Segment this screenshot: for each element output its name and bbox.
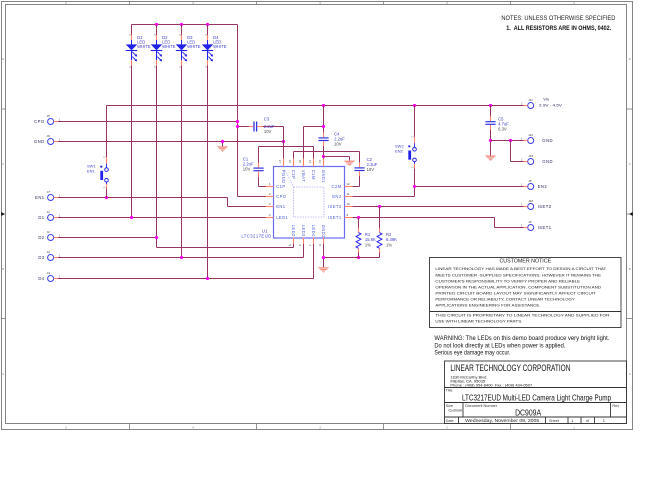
connector J5 CPO [34, 114, 61, 125]
svg-text:1: 1 [178, 66, 181, 68]
svg-text:J10: J10 [528, 199, 533, 203]
svg-text:EN1: EN1 [276, 204, 286, 209]
wire C3 left [236, 125, 249, 128]
capacitor C2 2.2uF [354, 157, 377, 176]
svg-text:J5: J5 [47, 114, 51, 118]
svg-text:J9: J9 [528, 220, 532, 224]
svg-text:J2: J2 [47, 230, 51, 234]
ground symbol (GND1) [344, 161, 355, 167]
LED D3 [176, 34, 201, 68]
svg-text:C3: C3 [264, 117, 270, 122]
svg-text:Custom: Custom [448, 408, 462, 413]
svg-text:Phone : (408) 954-8400 Fax :: Phone : (408) 954-8400 Fax : (408) 434-0… [450, 383, 533, 388]
svg-text:J4: J4 [47, 271, 51, 275]
connector J11 Vin [521, 98, 534, 109]
wire R1 top [358, 218, 360, 229]
svg-text:2: 2 [446, 426, 448, 430]
warning text [434, 335, 609, 357]
svg-text:Title: Title [446, 389, 453, 393]
svg-text:MEETS CUSTOMER -SUPPLIED SPECI: MEETS CUSTOMER -SUPPLIED SPECIFICATIONS;… [435, 272, 601, 277]
svg-text:Do not look directly at LEDs w: Do not look directly at LEDs when power … [434, 342, 565, 349]
svg-text:EN1: EN1 [35, 195, 45, 200]
capacitor C3 2.2uF [249, 117, 275, 134]
wire SW2 top [414, 106, 416, 137]
svg-text:WHITE: WHITE [213, 44, 227, 49]
svg-text:2: 2 [411, 136, 414, 138]
svg-text:GND: GND [542, 138, 553, 143]
svg-text:3: 3 [319, 426, 321, 430]
svg-text:DC909A: DC909A [515, 408, 542, 417]
ground symbol (GND rail) [217, 146, 228, 152]
svg-text:5: 5 [288, 244, 292, 246]
wire GND J12 line [491, 139, 525, 142]
svg-text:C: C [2, 162, 4, 166]
svg-text:LED1: LED1 [276, 215, 288, 220]
wire D3 anode column [181, 25, 183, 36]
svg-text:CPO: CPO [276, 194, 287, 199]
svg-text:10V: 10V [367, 167, 375, 172]
svg-text:3: 3 [269, 202, 271, 206]
svg-text:NOTES: UNLESS OTHERWISE SPECIF: NOTES: UNLESS OTHERWISE SPECIFIED [501, 15, 616, 22]
svg-text:EN2: EN2 [538, 184, 548, 189]
node bus junctions [155, 23, 209, 26]
svg-text:LINEAR TECHNOLOGY CORPORATION: LINEAR TECHNOLOGY CORPORATION [450, 363, 570, 373]
svg-text:1: 1 [571, 418, 574, 423]
wire C5 bottom to ground [489, 129, 492, 156]
svg-text:WHITE: WHITE [187, 44, 201, 49]
svg-text:D: D [629, 57, 631, 61]
resistor R1 15.6K [356, 228, 376, 252]
svg-text:12: 12 [346, 182, 350, 186]
svg-text:1%: 1% [365, 242, 371, 247]
connector J10 ISET2 [521, 199, 552, 210]
svg-text:USE WITH LINEAR TECHNOLOGY PAR: USE WITH LINEAR TECHNOLOGY PARTS. [435, 319, 522, 324]
wire ISET1 line [352, 216, 524, 228]
svg-text:J11: J11 [528, 98, 533, 102]
svg-text:9: 9 [346, 213, 348, 217]
svg-text:A: A [629, 372, 631, 376]
svg-text:B: B [629, 267, 631, 271]
wire C2M pin12 to C2 bottom [352, 176, 359, 187]
connector J9 ISET1 [521, 220, 552, 231]
svg-text:16: 16 [288, 160, 292, 164]
svg-text:OPERATION IN THE ACTUAL APPLIC: OPERATION IN THE ACTUAL APPLICATION. COM… [435, 284, 601, 289]
svg-text:C2P: C2P [291, 170, 296, 179]
svg-text:LED2: LED2 [291, 225, 296, 237]
wire VBAT pin15 [304, 127, 324, 159]
svg-text:ISET1: ISET1 [328, 215, 342, 220]
wire D1 anode column [131, 25, 133, 36]
capacitor C5 4.7uF [485, 116, 509, 131]
svg-text:10V: 10V [264, 129, 272, 134]
svg-text:ISET1: ISET1 [538, 225, 552, 230]
LED D4 [202, 34, 227, 68]
wire Vin to C4 [322, 106, 325, 134]
wire R1 bottom [357, 253, 360, 260]
svg-text:J1: J1 [47, 210, 51, 214]
svg-text:Document Number: Document Number [465, 404, 498, 408]
svg-text:EN2: EN2 [395, 148, 404, 153]
svg-text:D2: D2 [38, 235, 44, 240]
svg-text:PRINTED CIRCUIT BOARD LAYOUT M: PRINTED CIRCUIT BOARD LAYOUT MAY SIGNIFI… [435, 290, 596, 295]
title block [445, 361, 627, 424]
svg-text:LED4: LED4 [311, 225, 316, 237]
svg-text:THIS CIRCUIT IS PROPRIETARY TO: THIS CIRCUIT IS PROPRIETARY TO LINEAR TE… [435, 313, 609, 318]
wire GND2 to ground and resistors [322, 244, 380, 268]
wire C3 right to gnd [263, 127, 284, 142]
connector J12 GND [521, 133, 553, 144]
svg-text:10: 10 [346, 202, 350, 206]
svg-text:6.3V: 6.3V [498, 127, 507, 132]
wire R2 bottom [379, 253, 381, 258]
svg-text:J12: J12 [528, 133, 533, 137]
svg-text:1. ALL RESISTORS ARE IN OHMS,: 1. ALL RESISTORS ARE IN OHMS, 0402. [506, 26, 611, 32]
svg-text:WHITE: WHITE [162, 44, 176, 49]
svg-text:ISET2: ISET2 [328, 204, 342, 209]
svg-text:J8: J8 [528, 179, 532, 183]
svg-text:Wednesday, November 09, 2005: Wednesday, November 09, 2005 [465, 418, 539, 423]
svg-text:LINEAR TECHNOLOGY HAS MADE A B: LINEAR TECHNOLOGY HAS MADE A BEST EFFORT… [435, 266, 606, 271]
connector J7 EN1 [35, 190, 61, 201]
LED D1 [126, 34, 151, 68]
wire C2P pin16 to C2 top [294, 152, 360, 164]
svg-text:4: 4 [192, 426, 194, 430]
connector J4 D4 [38, 271, 61, 282]
ground symbol (C5) [485, 156, 496, 162]
svg-text:10V: 10V [243, 167, 251, 172]
svg-text:D: D [2, 57, 4, 61]
svg-text:Vin: Vin [543, 96, 549, 101]
svg-text:6: 6 [298, 244, 302, 246]
svg-text:4: 4 [269, 213, 271, 217]
wire LED1/D1 line [58, 216, 266, 219]
svg-text:VBAT: VBAT [301, 170, 306, 182]
svg-text:1%: 1% [386, 242, 392, 247]
capacitor C1 2.2uF [243, 156, 264, 176]
wire D2 line [58, 236, 158, 239]
svg-text:17: 17 [278, 160, 282, 164]
wire D3/LED3 line [58, 244, 304, 260]
svg-text:7: 7 [308, 244, 312, 246]
svg-text:EN1: EN1 [87, 169, 96, 174]
wire D4 cathode column [207, 65, 209, 278]
svg-text:A: A [2, 372, 4, 376]
customer notice box [430, 258, 622, 328]
connector J2 D2 [38, 230, 61, 241]
svg-text:1: 1 [573, 426, 575, 430]
svg-text:CPO: CPO [34, 119, 45, 124]
svg-text:PGND: PGND [281, 170, 286, 184]
wire C4 bottom to GND1 [322, 145, 325, 159]
connector J13 GND [521, 154, 553, 165]
svg-text:J7: J7 [47, 190, 51, 194]
switch SW1 EN1 [87, 156, 108, 189]
label Vin voltage [539, 96, 562, 107]
svg-text:10V: 10V [334, 142, 342, 147]
wire LED anode bus [132, 24, 238, 26]
wire D1 cathode column [131, 65, 133, 217]
svg-text:ISET2: ISET2 [538, 204, 552, 209]
svg-text:8: 8 [318, 244, 322, 246]
svg-text:C1M: C1M [311, 170, 316, 180]
svg-text:J13: J13 [528, 154, 533, 158]
svg-text:2: 2 [178, 34, 181, 36]
wire SW2 bottom / EN2 line [352, 168, 524, 196]
svg-text:J6: J6 [47, 134, 51, 138]
op-amp U1 LTC3217EUD [241, 159, 352, 247]
node Vin junctions [322, 104, 492, 107]
svg-text:CUSTOMER NOTICE: CUSTOMER NOTICE [499, 259, 551, 265]
svg-text:GND: GND [542, 159, 553, 164]
wire GND (J6) rail [58, 140, 285, 147]
wire CPO vertical [238, 25, 266, 197]
svg-text:Sheet: Sheet [549, 419, 560, 423]
svg-text:1: 1 [153, 66, 156, 68]
wire LED2 line [157, 244, 294, 248]
connector J8 EN2 [521, 179, 548, 190]
ground symbol (GND2) [318, 267, 329, 273]
svg-text:APPLICATIONS ENGINEERING FOR A: APPLICATIONS ENGINEERING FOR ASSISTANCE. [435, 303, 540, 308]
wire SW1 bottom [106, 188, 108, 197]
capacitor C4 2.2uF [318, 131, 345, 146]
resistor R2 6.49K [377, 228, 397, 252]
svg-text:EN2: EN2 [332, 194, 342, 199]
svg-text:LED3: LED3 [301, 225, 306, 237]
svg-text:2: 2 [103, 156, 106, 158]
wire Vin rail [107, 106, 525, 158]
svg-text:LTC3217EUD Multi-LED Camera Li: LTC3217EUD Multi-LED Camera Light Charge… [462, 393, 611, 402]
svg-text:D3: D3 [38, 255, 44, 260]
connector J3 D3 [38, 250, 61, 261]
wire D3 cathode column [181, 65, 183, 257]
svg-text:1: 1 [128, 66, 131, 68]
svg-text:of: of [586, 419, 590, 423]
svg-text:13: 13 [318, 160, 322, 164]
svg-text:2: 2 [269, 192, 271, 196]
wire D4 anode column [207, 25, 209, 36]
switch SW2 EN2 [395, 136, 416, 169]
wire C1 bottom to C1P [259, 177, 266, 187]
connector J1 D1 [38, 210, 61, 221]
svg-text:2: 2 [128, 34, 131, 36]
LED D2 [151, 34, 176, 68]
wire CPO (J5) line [58, 120, 239, 123]
wire ISET2 line [352, 205, 524, 208]
svg-text:14: 14 [308, 160, 312, 164]
notes text [501, 15, 616, 32]
svg-text:D4: D4 [38, 276, 44, 281]
wire EN1 line [58, 196, 266, 207]
wire GND J13 line [511, 141, 525, 162]
svg-text:2: 2 [204, 34, 207, 36]
svg-text:GND: GND [34, 139, 45, 144]
svg-text:1: 1 [411, 167, 414, 169]
svg-text:Date: Date [446, 419, 454, 423]
wire PGND pin17 [283, 142, 285, 159]
svg-text:GND2: GND2 [321, 225, 326, 239]
svg-text:15: 15 [298, 160, 302, 164]
wire D4/LED4 line [58, 244, 314, 281]
svg-text:D1: D1 [38, 215, 44, 220]
svg-text:PERFORMANCE OR RELIABILITY. CO: PERFORMANCE OR RELIABILITY. CONTACT LINE… [435, 297, 575, 302]
connector J6 GND [34, 134, 61, 145]
svg-text:2.9V - 4.5V: 2.9V - 4.5V [539, 102, 562, 107]
svg-text:Rev: Rev [612, 404, 619, 408]
svg-text:1: 1 [103, 187, 106, 189]
wire R2 top [379, 207, 381, 229]
wire C1 top to C1M [259, 147, 314, 165]
wire Vin to C5 [490, 106, 492, 119]
wire GND1 to ground [324, 157, 350, 161]
svg-text:LTC3217EUD: LTC3217EUD [241, 233, 271, 238]
svg-text:GND1: GND1 [321, 170, 326, 184]
svg-text:B: B [2, 267, 4, 271]
svg-text:Serious eye damage may occur.: Serious eye damage may occur. [434, 350, 510, 357]
svg-text:WHITE: WHITE [137, 44, 151, 49]
svg-text:1: 1 [204, 66, 207, 68]
svg-text:11: 11 [346, 192, 349, 196]
svg-text:C: C [629, 162, 631, 166]
svg-text:J3: J3 [47, 250, 51, 254]
svg-text:5: 5 [65, 426, 67, 430]
wire D2 anode column [156, 25, 158, 36]
svg-text:C2M: C2M [332, 184, 342, 189]
wire D2 cathode column [156, 65, 158, 247]
svg-text:1: 1 [603, 418, 606, 423]
svg-text:CUSTOMER'S RESPONSIBILITY TO V: CUSTOMER'S RESPONSIBILITY TO VERIFY PROP… [435, 278, 580, 283]
svg-text:WARNING: The LEDs on this demo: WARNING: The LEDs on this demo board pro… [434, 335, 609, 342]
svg-text:1: 1 [269, 182, 271, 186]
svg-text:C1P: C1P [276, 184, 285, 189]
svg-text:2: 2 [153, 34, 156, 36]
